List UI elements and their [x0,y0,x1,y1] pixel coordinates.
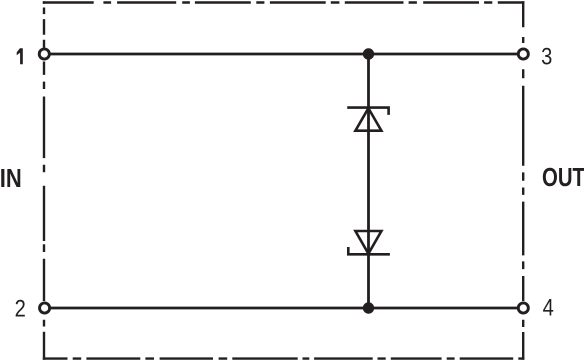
svg-text:3: 3 [541,43,552,70]
svg-text:IN: IN [0,165,22,193]
svg-text:2: 2 [15,296,26,323]
svg-text:4: 4 [543,294,554,321]
svg-text:OUT: OUT [542,164,584,192]
